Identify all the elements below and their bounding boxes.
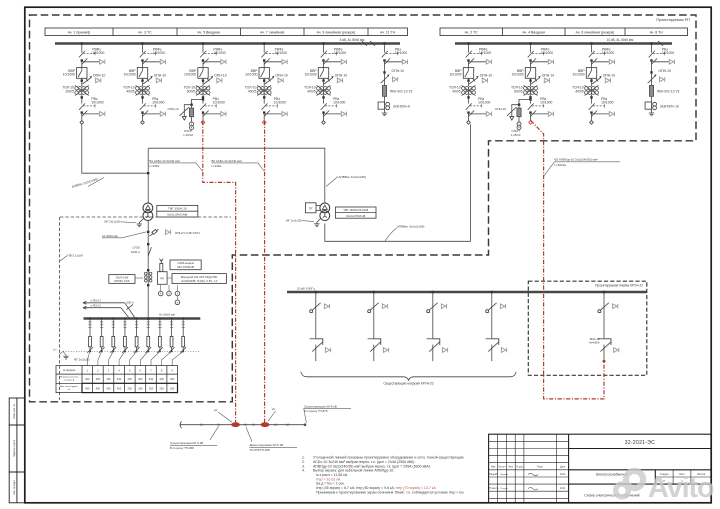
feeder label row section 2 — [440, 28, 688, 36]
svg-text:ТП-876/ТП-368: ТП-876/ТП-368 — [250, 448, 270, 452]
svg-text:ОПН-10: ОПН-10 — [154, 73, 167, 77]
svg-text:Существующая КЛ-6 кВ: Существующая КЛ-6 кВ — [304, 404, 337, 408]
svg-text:400: 400 — [85, 386, 90, 390]
svg-text:400: 400 — [138, 377, 143, 381]
bay 9 reserve switchgear bay — [304, 42, 347, 124]
svg-text:10/1000: 10/1000 — [395, 51, 407, 55]
LV ground — [60, 351, 67, 356]
svg-text:10/1000: 10/1000 — [511, 73, 523, 77]
svg-text:яч. 2 ТС: яч. 2 ТС — [465, 30, 479, 34]
T2 ground — [317, 219, 321, 224]
svg-text:Существующие нагрузки КРУН-22: Существующие нагрузки КРУН-22 — [383, 381, 434, 385]
busbar 10kV section 2 — [455, 42, 672, 44]
svg-text:яч. 11 ТН: яч. 11 ТН — [380, 30, 395, 34]
svg-text:10/1000: 10/1000 — [245, 73, 257, 77]
svg-text:600/5: 600/5 — [187, 89, 196, 93]
svg-text:400: 400 — [96, 377, 101, 381]
svg-text:10/1000: 10/1000 — [275, 51, 287, 55]
svg-text:400/5: 400/5 — [307, 89, 316, 93]
svg-text:1,25/10: 1,25/10 — [183, 133, 193, 137]
svg-text:10/1000: 10/1000 — [333, 101, 345, 105]
svg-text:Демонтируемая КЛ-6 кВ: Демонтируемая КЛ-6 кВ — [250, 443, 284, 447]
svg-text:ОПН-10: ОПН-10 — [392, 69, 405, 73]
svg-text:10.21: 10.21 — [560, 488, 566, 490]
svg-text:яч. 7 линейная: яч. 7 линейная — [260, 30, 284, 34]
svg-text:250: 250 — [138, 386, 143, 390]
svg-text:РК: РК — [160, 277, 164, 281]
PG box — [305, 203, 316, 213]
meter Mercury box — [172, 274, 226, 284]
svg-text:10/1000: 10/1000 — [479, 51, 491, 55]
arrester-fuse OLSP assembly — [507, 98, 532, 130]
svg-text:МГ 2х(1х25): МГ 2х(1х25) — [104, 220, 120, 224]
svg-text:400: 400 — [128, 377, 133, 381]
svg-text:250: 250 — [170, 386, 175, 390]
svg-text:Дата: Дата — [560, 467, 566, 469]
svg-text:400: 400 — [106, 377, 111, 381]
svg-text:32-2021-ЭС: 32-2021-ЭС — [625, 440, 655, 446]
svg-text:В сторону ТП-876: В сторону ТП-876 — [304, 409, 328, 413]
cable head — [590, 121, 594, 125]
title block — [489, 434, 712, 503]
LV feeder 1 — [87, 318, 93, 353]
brace existing loads — [301, 372, 516, 380]
svg-text:яч. 5 Вводная: яч. 5 Вводная — [197, 30, 220, 34]
CT on LV line — [144, 272, 152, 282]
bay 2 switchgear bay — [449, 42, 492, 124]
red cable head — [201, 121, 205, 125]
existing load bay 1 — [310, 291, 331, 361]
svg-text:600/5: 600/5 — [514, 89, 523, 93]
bay 7 line switchgear bay — [245, 42, 288, 124]
red overhead cable VL to KRUN — [531, 121, 604, 399]
svg-text:В1 АСБл-10 3х240 мм²: В1 АСБл-10 3х240 мм² — [150, 159, 180, 163]
svg-text:10/1000: 10/1000 — [541, 51, 553, 55]
wire T1-T2 link — [148, 148, 325, 203]
dotted PE line — [63, 350, 200, 352]
svg-text:Существующая КЛ-6 кВ: Существующая КЛ-6 кВ — [170, 441, 203, 445]
wire bay1 to T1 — [82, 124, 148, 203]
svg-text:Изм: Изм — [491, 467, 496, 469]
existing cable line with joints — [180, 421, 181, 428]
svg-text:10/1000: 10/1000 — [184, 73, 196, 77]
svg-text:400: 400 — [149, 377, 154, 381]
svg-text:м1: м1 — [214, 408, 218, 412]
project scope dashed boundary — [30, 15, 697, 402]
LV feeder 7 — [157, 318, 163, 353]
LV feeder 3 — [111, 318, 117, 353]
svg-text:10/1000: 10/1000 — [92, 51, 104, 55]
svg-text:Разраб: Разраб — [489, 473, 498, 476]
svg-text:В2 АСБл-10 3х240 мм²: В2 АСБл-10 3х240 мм² — [212, 159, 242, 163]
svg-text:вставки, А: вставки, А — [64, 378, 75, 381]
svg-text:10/1000: 10/1000 — [274, 101, 286, 105]
RK box — [157, 272, 167, 285]
svg-text:№ фидера: № фидера — [63, 369, 76, 372]
existing load bay 4 — [486, 291, 507, 361]
svg-text:10/1000: 10/1000 — [449, 73, 461, 77]
cable head — [467, 121, 471, 125]
svg-text:10/1000: 10/1000 — [63, 73, 75, 77]
transformer T2 — [320, 203, 330, 221]
svg-text:N док: N док — [517, 467, 524, 469]
svg-text:400: 400 — [117, 377, 122, 381]
red cable B1 — [203, 121, 236, 423]
svg-text:10/1000: 10/1000 — [572, 73, 584, 77]
svg-text:3х230/400В, 5(10)А, 0,5S, 1,0: 3х230/400В, 5(10)А, 0,5S, 1,0 — [181, 279, 218, 283]
Avito watermark — [616, 471, 714, 504]
svg-text:Петров: Петров — [501, 488, 509, 490]
LV surge arrester OPN-P — [147, 231, 149, 233]
bay 4 incoming switchgear bay — [495, 42, 554, 137]
LV feeder 8 — [169, 318, 175, 353]
svg-text:ОПН-10: ОПН-10 — [495, 107, 506, 111]
existing load bay 2 — [368, 291, 389, 361]
svg-text:10/1000: 10/1000 — [334, 51, 346, 55]
cable head — [141, 121, 145, 125]
svg-text:В3 АПВПду-10 3х(2х240/35) мм²: В3 АПВПду-10 3х(2х240/35) мм² — [555, 158, 598, 162]
svg-text:10/1000: 10/1000 — [540, 101, 552, 105]
svg-text:10/1000: 10/1000 — [304, 73, 316, 77]
LV main feed wire — [147, 220, 149, 318]
svg-text:ОПН-10: ОПН-10 — [659, 69, 672, 73]
svg-text:4.: 4. — [302, 469, 305, 473]
svg-text:МГ 2х(1х25): МГ 2х(1х25) — [74, 357, 90, 361]
svg-text:10/1000: 10/1000 — [152, 101, 164, 105]
svg-text:1600 А: 1600 А — [131, 250, 140, 254]
svg-text:к ЯСН 1: к ЯСН 1 — [91, 299, 102, 303]
wire T2 to bay 2 loop — [325, 124, 471, 241]
svg-text:ОПН-П-0,38 УХЛ1: ОПН-П-0,38 УХЛ1 — [175, 231, 200, 235]
cable label — [71, 177, 98, 189]
svg-text:ОПН-10: ОПН-10 — [93, 73, 106, 77]
svg-text:250: 250 — [159, 386, 164, 390]
busbar 6kV section 1 — [55, 42, 400, 44]
svg-text:АПВВнг 3х2х(1х95): АПВВнг 3х2х(1х95) — [339, 175, 366, 179]
LV feeder 2 — [99, 318, 105, 353]
svg-text:Подп.: Подп. — [537, 467, 543, 469]
svg-text:400: 400 — [117, 386, 122, 390]
svg-text:яч. 3 ТС: яч. 3 ТС — [138, 30, 152, 34]
svg-text:яч. 8 ТН: яч. 8 ТН — [650, 30, 664, 34]
svg-text:10/1000: 10/1000 — [478, 101, 490, 105]
svg-text:400/5: 400/5 — [575, 89, 584, 93]
svg-text:ТМГ 1000/10/6-10кВ: ТМГ 1000/10/6-10кВ — [343, 208, 368, 212]
svg-text:МГ 2х(1х25): МГ 2х(1х25) — [286, 218, 302, 222]
svg-text:250: 250 — [149, 386, 154, 390]
LV feeder table — [56, 366, 178, 393]
GSM modem box — [170, 260, 201, 270]
svg-text:ОПН-10: ОПН-10 — [335, 73, 348, 77]
svg-text:10/1000: 10/1000 — [601, 101, 613, 105]
cable joint M2 — [261, 422, 270, 427]
svg-text:Проектируемая РП: Проектируемая РП — [656, 18, 690, 22]
svg-text:Меркурий 234 АРТ-03(Д) РВL: Меркурий 234 АРТ-03(Д) РВL — [181, 275, 218, 279]
svg-text:L=233м: L=233м — [150, 164, 160, 168]
svg-text:ОПН-10: ОПН-10 — [542, 73, 555, 77]
red cable head — [529, 121, 533, 125]
T1 label box — [157, 205, 198, 217]
LV feeder 6 — [145, 318, 151, 353]
svg-text:3х3НОЛч-10: 3х3НОЛч-10 — [660, 104, 679, 108]
svg-text:к ЯСН 2: к ЯСН 2 — [91, 304, 102, 308]
svg-text:Iн=630А: Iн=630А — [589, 341, 600, 345]
svg-text:В сторону ТП-368: В сторону ТП-368 — [170, 446, 194, 450]
svg-text:IRZ АТМ21В: IRZ АТМ21В — [177, 265, 194, 269]
cable head — [80, 121, 84, 125]
svg-text:ПВ-2 1х2х8: ПВ-2 1х2х8 — [68, 254, 83, 258]
svg-text:10/1000: 10/1000 — [91, 101, 103, 105]
svg-text:400: 400 — [170, 377, 175, 381]
bay 1 switchgear bay — [62, 42, 105, 124]
svg-text:600/5А 0,5S: 600/5А 0,5S — [114, 279, 130, 283]
svg-text:ПКН 001-10 У3: ПКН 001-10 У3 — [390, 90, 413, 94]
svg-text:10/1000: 10/1000 — [153, 51, 165, 55]
svg-text:10/1000: 10/1000 — [213, 101, 225, 105]
svg-text:400: 400 — [85, 377, 90, 381]
svg-text:250: 250 — [128, 386, 133, 390]
svg-text:10 кВ, AL 50х5 мм: 10 кВ, AL 50х5 мм — [607, 38, 634, 42]
svg-text:400/5: 400/5 — [248, 89, 257, 93]
svg-text:AL 60х6 мм: AL 60х6 мм — [159, 313, 175, 317]
svg-text:6 кВ, AL 80х6 мм: 6 кВ, AL 80х6 мм — [340, 38, 365, 42]
frame side stamp — [9, 398, 25, 503]
svg-text:10/1000: 10/1000 — [213, 51, 225, 55]
svg-text:L=1633м: L=1633м — [555, 163, 566, 167]
VNA-10 bay in KRUN cell — [598, 291, 619, 361]
svg-text:ТМГ 630/6-10: ТМГ 630/6-10 — [168, 207, 187, 211]
dashed TP boundary — [60, 216, 231, 218]
red cable head — [262, 121, 266, 125]
svg-text:400/5: 400/5 — [452, 89, 461, 93]
svg-text:Avito: Avito — [648, 472, 714, 504]
cable head — [322, 121, 326, 125]
svg-text:Схема электрических соединений: Схема электрических соединений — [584, 493, 639, 497]
LV busbar 0.4kV — [84, 317, 201, 319]
svg-text:1,25/10: 1,25/10 — [511, 133, 521, 137]
svg-text:6х2х1,5%/0,4кВ: 6х2х1,5%/0,4кВ — [167, 212, 187, 216]
svg-text:400: 400 — [159, 377, 164, 381]
T1 ground — [139, 219, 143, 224]
svg-text:3х3НОЛч-6: 3х3НОЛч-6 — [393, 104, 410, 108]
svg-text:Н.контр: Н.контр — [489, 487, 499, 490]
svg-text:ОПН-10: ОПН-10 — [603, 73, 616, 77]
existing load bay 3 — [427, 291, 448, 361]
svg-text:Взам. инв. №: Взам. инв. № — [13, 404, 16, 419]
arrester-fuse OLSP assembly — [180, 98, 205, 130]
bay 3 switchgear bay — [123, 42, 166, 124]
svg-text:ОПН-10: ОПН-10 — [480, 73, 493, 77]
red cable B2 — [264, 121, 266, 423]
red cable head KRUN — [602, 359, 606, 363]
LV feeder 9 — [180, 318, 186, 353]
busbar 10kV KRUN — [287, 291, 647, 293]
svg-text:Мах ток нагрузки,: Мах ток нагрузки, — [60, 386, 78, 388]
T2 label box — [336, 207, 377, 218]
svg-text:10.21: 10.21 — [560, 474, 566, 476]
svg-text:ОПН-10: ОПН-10 — [168, 107, 179, 111]
svg-text:яч. 1 прием/ф: яч. 1 прием/ф — [68, 30, 91, 34]
svg-text:ОПН-10: ОПН-10 — [275, 73, 288, 77]
LV feeder 5 — [134, 318, 140, 353]
LV feeder 4 — [122, 318, 128, 353]
svg-text:400: 400 — [96, 386, 101, 390]
cable joint M1 — [231, 422, 240, 427]
svg-text:Электроснабжение: Электроснабжение — [595, 472, 628, 476]
antenna — [160, 259, 164, 264]
bay 11 voltage transformer (left) — [378, 42, 412, 116]
svg-text:АПВВнг 3х2х(1х95): АПВВнг 3х2х(1х95) — [397, 224, 424, 228]
ammeter circles — [160, 285, 162, 291]
svg-text:яч. 9 линейная (резерв): яч. 9 линейная (резерв) — [317, 30, 356, 34]
svg-text:Номинальный ток: Номинальный ток — [60, 376, 78, 379]
svg-text:400: 400 — [106, 386, 111, 390]
svg-text:400/5: 400/5 — [126, 89, 135, 93]
bay 6 reserve switchgear bay — [572, 42, 615, 124]
svg-text:Проектируемая ячейка КРУН-22: Проектируемая ячейка КРУН-22 — [595, 283, 643, 287]
svg-text:яч. 6 линейная (резерв): яч. 6 линейная (резерв) — [576, 30, 615, 34]
transformer T1 — [143, 203, 153, 221]
svg-text:яч. 4 Вводная: яч. 4 Вводная — [522, 30, 545, 34]
voltmeter — [176, 296, 178, 300]
svg-text:10/1000: 10/1000 — [662, 51, 674, 55]
dashed box KRUN-22 cell — [528, 281, 647, 375]
svg-text:10х2х2,5%/6 кВ: 10х2х2,5%/6 кВ — [346, 214, 365, 218]
svg-text:200/5: 200/5 — [66, 89, 75, 93]
svg-text:Кол.уч: Кол.уч — [499, 467, 507, 469]
svg-text:Принимаем к проектированию экр: Принимаем к проектированию экран сечение… — [316, 490, 464, 494]
svg-text:10 кВ 3-50Гц: 10 кВ 3-50Гц — [297, 286, 315, 290]
svg-text:10/1000: 10/1000 — [602, 51, 614, 55]
svg-text:м1: м1 — [272, 407, 276, 411]
svg-text:ПГ: ПГ — [309, 206, 313, 210]
svg-text:10/1000: 10/1000 — [123, 73, 135, 77]
YASN outgoing arrows — [83, 302, 125, 304]
svg-text:AL 60х6 мм: AL 60х6 мм — [102, 234, 118, 238]
bay 8 voltage transformer (right) — [645, 42, 679, 116]
svg-text:Инв. № подл.: Инв. № подл. — [13, 480, 16, 495]
svg-text:ОПН-10: ОПН-10 — [214, 73, 227, 77]
TShP box — [109, 275, 135, 284]
svg-text:Подпись и дата: Подпись и дата — [13, 439, 16, 457]
svg-text:Иванов: Иванов — [501, 474, 509, 476]
svg-text:500 А: 500 А — [127, 300, 134, 304]
svg-text:ПКН 001-10 У3: ПКН 001-10 У3 — [657, 90, 680, 94]
feeder label row section 1 — [45, 28, 408, 36]
bay 5 incoming switchgear bay — [168, 42, 227, 137]
svg-text:L=219м: L=219м — [212, 164, 222, 168]
